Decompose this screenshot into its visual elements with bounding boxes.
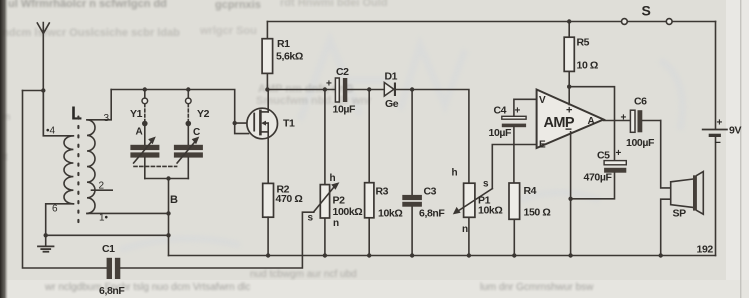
svg-text:V: V [539, 95, 546, 106]
wire R5 to C5 [569, 87, 614, 161]
svg-text:Ge: Ge [385, 98, 399, 110]
wire antenna to coil tap 4 [43, 91, 72, 136]
svg-text:R1: R1 [277, 38, 290, 50]
svg-text:D1: D1 [385, 71, 398, 83]
svg-text:T1: T1 [283, 118, 295, 130]
svg-text:10µF: 10µF [333, 104, 357, 116]
svg-text:R5: R5 [577, 37, 590, 49]
inductor L core (dashed) [77, 117, 79, 225]
wire C1 to P2 wiper riser [120, 212, 313, 268]
inductor L left winding [64, 136, 73, 204]
svg-text:192: 192 [697, 244, 714, 256]
wire C6 to speaker [661, 121, 671, 188]
wire antenna junction to left [23, 90, 44, 92]
wire gate lead [235, 122, 255, 124]
svg-text:wrlgcr Sou: wrlgcr Sou [199, 25, 257, 37]
svg-text:S: S [642, 3, 651, 19]
variable capacitor Y2 [174, 90, 203, 179]
svg-text:s: s [483, 179, 489, 190]
svg-text:+: + [515, 106, 521, 117]
svg-text:9V: 9V [729, 125, 741, 137]
svg-text:100µF: 100µF [626, 137, 655, 149]
resistor R5 [564, 22, 574, 87]
node Y bottom junction [166, 176, 170, 180]
svg-text:2: 2 [99, 181, 105, 192]
switch S [622, 19, 673, 25]
svg-text:6,8nF: 6,8nF [99, 285, 125, 297]
node C5 return [568, 197, 572, 201]
wire AMP output [604, 120, 631, 122]
svg-text:s: s [308, 213, 314, 224]
svg-text:6: 6 [52, 204, 58, 215]
svg-text:A: A [136, 127, 143, 138]
wire top rail [267, 21, 715, 23]
diode D1 [384, 83, 396, 97]
wire left vertical down to bottom [23, 91, 107, 269]
node B ground [166, 233, 170, 237]
svg-text:C3: C3 [424, 186, 437, 198]
svg-text:C6: C6 [634, 96, 647, 108]
node R5 bottom [567, 85, 571, 89]
svg-text:+: + [616, 148, 622, 159]
wire node B vertical [168, 179, 170, 256]
node drain junction [265, 87, 269, 91]
svg-text:+: + [326, 79, 332, 90]
node P2 top [323, 87, 327, 91]
node R5 top [567, 19, 571, 23]
node B pin1 [166, 211, 170, 215]
resistor R3 [365, 90, 374, 256]
node R3 top [367, 87, 371, 91]
svg-text:SP: SP [673, 208, 687, 220]
wire AMP plus supply [568, 87, 570, 105]
node Y1 top [143, 87, 147, 91]
svg-text:10kΩ: 10kΩ [378, 208, 402, 220]
resistor R2 [263, 183, 274, 255]
node C3 top [410, 87, 414, 91]
svg-text:150 Ω: 150 Ω [524, 207, 551, 219]
svg-text:470µF: 470µF [584, 172, 613, 184]
capacitor C2 [335, 78, 347, 102]
op-amp U1 AMP module [537, 90, 604, 149]
svg-text:10µF: 10µF [489, 127, 513, 139]
svg-text:Y2: Y2 [197, 108, 210, 120]
node P1 bottom [467, 253, 471, 257]
svg-text:ul Wfrmrhäolcr n scfwrlgcn dd: ul Wfrmrhäolcr n scfwrlgcn dd [8, 0, 167, 10]
resistor R1 [262, 22, 273, 90]
svg-text:R3: R3 [376, 186, 389, 198]
svg-text:+: + [717, 118, 723, 129]
svg-text:3: 3 [104, 113, 110, 124]
wire coil pin1 to node B [87, 212, 169, 214]
svg-text:P2: P2 [333, 195, 346, 207]
svg-text:100kΩ: 100kΩ [333, 206, 363, 218]
svg-text:AMP: AMP [544, 115, 575, 131]
svg-text:lum dnr Gcmrnshwur bsw: lum dnr Gcmrnshwur bsw [480, 282, 594, 293]
svg-text:rdt Hnwmi bdei Ould: rdt Hnwmi bdei Ould [280, 0, 388, 9]
svg-text:n: n [333, 218, 339, 229]
wire coil pin6 to ground [46, 204, 74, 236]
svg-text:−: − [715, 137, 721, 149]
node ground symbol junction [44, 233, 48, 237]
inductor L right winding [87, 120, 95, 214]
svg-text:C5: C5 [597, 150, 610, 162]
node R2 bottom [266, 253, 270, 257]
svg-text:1•: 1• [99, 213, 109, 224]
ground [38, 235, 54, 251]
resistor R4 [509, 183, 520, 256]
svg-text:L: L [71, 104, 82, 124]
node AMP minus ground rail [568, 253, 572, 257]
capacitor C4 [502, 99, 537, 183]
svg-text:C2: C2 [336, 66, 349, 78]
svg-text:E: E [539, 140, 546, 151]
node Y2 top [186, 87, 190, 91]
antenna [37, 23, 49, 136]
wire coil pin3 up to gate line [87, 90, 111, 120]
svg-text:gcprnxis: gcprnxis [215, 0, 261, 11]
svg-text:+: + [621, 113, 627, 124]
wire coil pin2 stub [92, 189, 113, 191]
wire Y bottoms joined [145, 178, 189, 180]
svg-text:470 Ω: 470 Ω [276, 193, 303, 205]
variable capacitor Y1 [130, 90, 159, 179]
wire gate line (pin3 to T1 gate) [111, 90, 248, 134]
wire main ground rail [169, 255, 716, 257]
svg-text:10 Ω: 10 Ω [577, 60, 598, 72]
node antenna junction [41, 88, 45, 92]
battery 9V [703, 22, 727, 256]
transistor T1 [247, 90, 278, 184]
svg-text:B: B [170, 194, 178, 206]
node P2 bottom [323, 253, 327, 257]
svg-text:C1: C1 [102, 243, 115, 255]
svg-text:10kΩ: 10kΩ [478, 205, 502, 217]
node speaker ground [659, 253, 663, 257]
capacitor C6 [630, 110, 660, 132]
wire gang link (dashed) [134, 165, 177, 167]
wire signal rail [267, 90, 469, 184]
node R4 bottom [512, 253, 516, 257]
svg-text:n: n [462, 224, 468, 235]
node R3 bottom [367, 253, 371, 257]
svg-text:Y1: Y1 [130, 108, 143, 120]
capacitor C5 [571, 161, 627, 199]
wire speaker bottom to ground [661, 199, 671, 255]
svg-text:C: C [193, 127, 200, 138]
capacitor C3 [402, 90, 422, 256]
node gate junction [233, 121, 237, 125]
svg-text:A: A [588, 116, 595, 127]
svg-text:6,8nF: 6,8nF [419, 208, 445, 220]
svg-text:•4: •4 [46, 126, 56, 137]
node C3 bottom [410, 253, 414, 257]
speaker SP [671, 172, 704, 215]
svg-text:wr nclgdbum Enchr tslg nuo dcm: wr nclgdbum Enchr tslg nuo dcm Vrtsafwrn… [44, 282, 250, 293]
svg-text:C4: C4 [494, 105, 507, 117]
svg-text:nud tcbwgm aur ncf ubd: nud tcbwgm aur ncf ubd [250, 269, 357, 280]
svg-text:h: h [330, 173, 336, 184]
svg-text:ndcm lsfwcr Ouslcsiche scbr ld: ndcm lsfwcr Ouslcsiche scbr ldab [2, 27, 180, 39]
wire AMP minus to ground [570, 132, 572, 256]
svg-text:R4: R4 [524, 185, 537, 197]
wire E to P1 wiper [492, 145, 536, 189]
potentiometer P1 [453, 183, 493, 255]
svg-text:h: h [452, 168, 458, 179]
potentiometer P2 [314, 90, 340, 256]
wire ground rail left [46, 234, 169, 236]
svg-text:5,6kΩ: 5,6kΩ [276, 51, 303, 63]
capacitor C1 [107, 258, 121, 279]
